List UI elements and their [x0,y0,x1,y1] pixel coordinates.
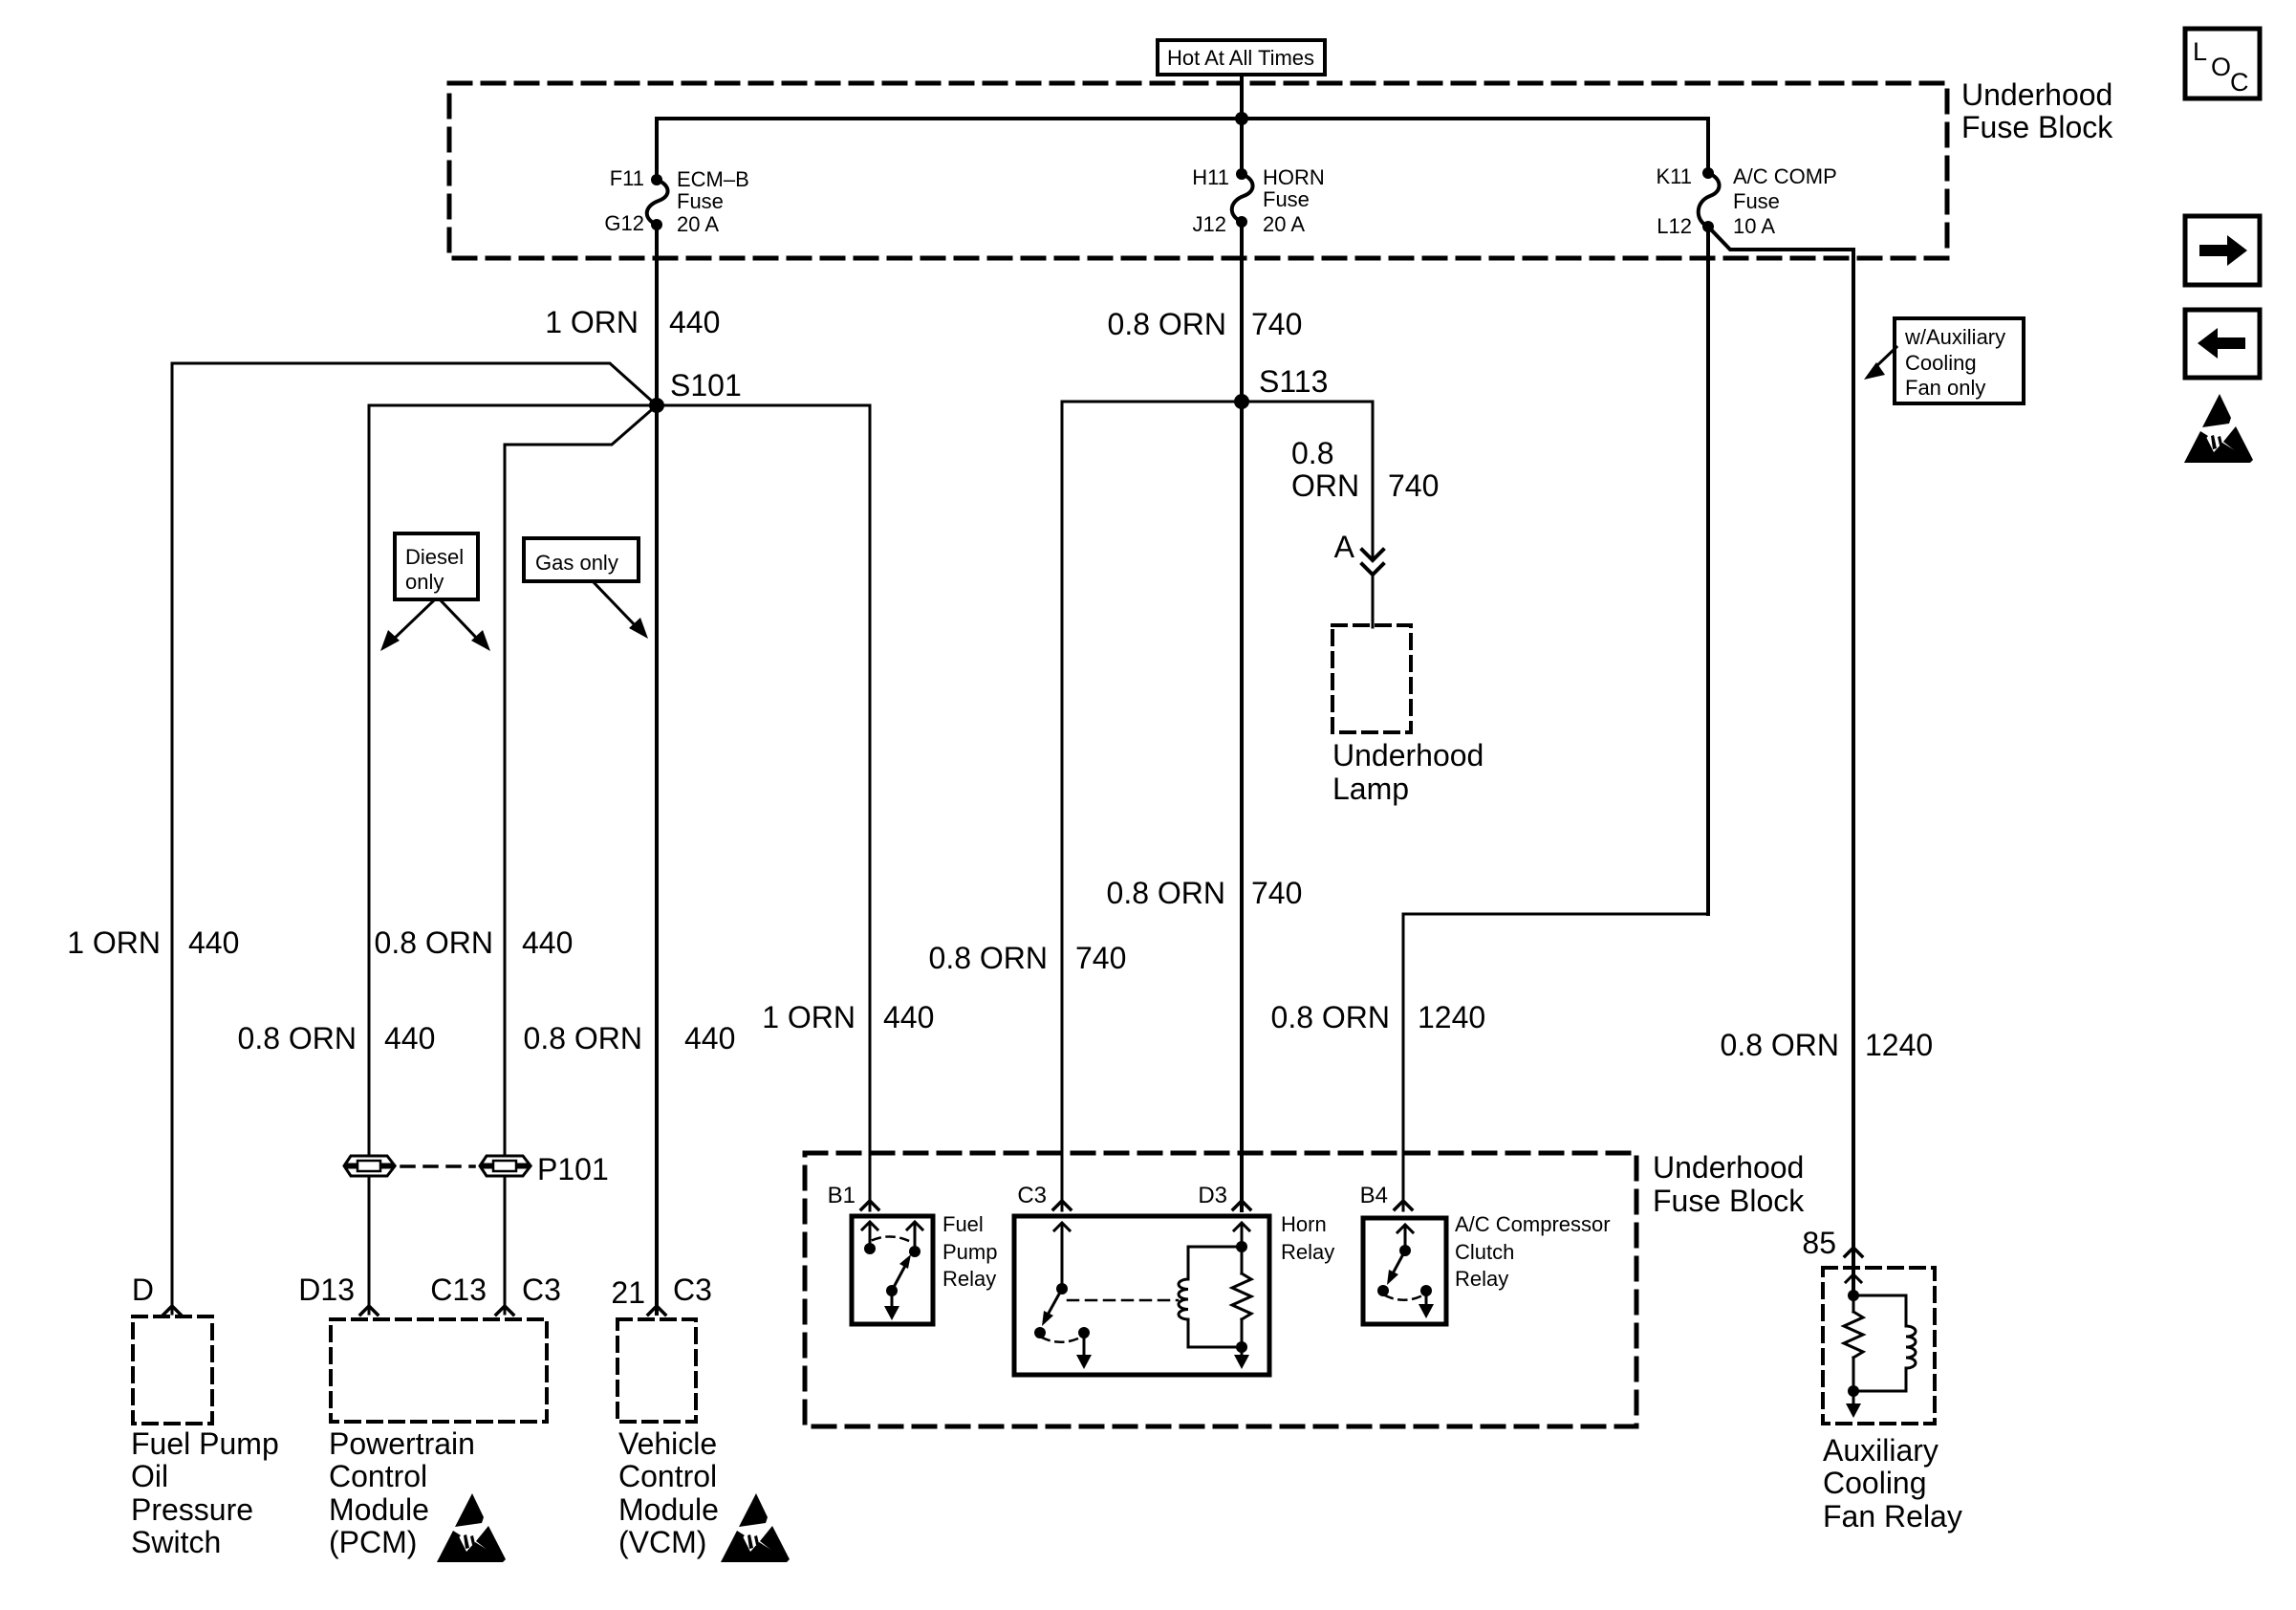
fuse ECM-B 20A (F11/G12) [647,174,668,230]
svg-text:L: L [2193,37,2207,66]
terminal 21 [611,1275,665,1315]
wire: S113 left branch [1062,402,1242,1210]
svg-text:20 A: 20 A [1263,212,1305,236]
svg-text:Fuse: Fuse [1263,187,1310,211]
svg-text:0.8 ORN: 0.8 ORN [1108,307,1226,341]
wire: S101 to VCM C3 [655,405,659,1314]
svg-text:F11: F11 [610,166,644,190]
svg-text:HORN: HORN [1263,165,1325,189]
svg-text:440: 440 [883,1000,934,1034]
wire label 0.8 ORN 440 (VCM wire) [524,1021,736,1055]
svg-text:P101: P101 [537,1152,609,1186]
svg-text:740: 740 [1388,468,1439,503]
svg-text:Lamp: Lamp [1332,772,1409,806]
wire: K11 elbow to B4 [1403,914,1708,1210]
svg-text:Module: Module [618,1492,719,1527]
svg-text:740: 740 [1075,941,1126,975]
svg-text:w/Auxiliary: w/Auxiliary [1904,325,2005,349]
svg-text:B4: B4 [1360,1183,1388,1208]
a/c compressor clutch relay U3 [1363,1218,1446,1324]
svg-text:(PCM): (PCM) [329,1525,417,1559]
svg-text:Relay: Relay [1281,1240,1334,1264]
arrow: gas to VCM wire [593,581,648,639]
arrow: diesel to right wire [440,599,490,651]
wire: H11 drop [1240,119,1244,174]
svg-text:Relay: Relay [942,1267,996,1291]
svg-text:C3: C3 [1017,1183,1047,1208]
label: Auxiliary Cooling Fan Relay [1823,1433,1962,1534]
label: Fuel Pump Relay [942,1212,997,1291]
svg-text:C: C [2230,68,2249,97]
next-page right arrow box [2185,216,2260,285]
svg-text:Powertrain: Powertrain [329,1426,475,1461]
svg-text:0.8 ORN: 0.8 ORN [1721,1028,1839,1062]
svg-text:J12: J12 [1193,212,1226,236]
svg-text:10 A: 10 A [1733,214,1775,238]
wire: S101 left branch at 424 [369,404,657,407]
node S101 [649,368,742,413]
svg-text:(VCM): (VCM) [618,1525,706,1559]
connector P101 (left half on D13 wire) [345,1156,394,1176]
value label ECM-B Fuse 20 A [677,167,749,236]
wire: K11 drop [1706,119,1710,173]
terminal D13 [298,1273,378,1315]
svg-text:Cooling: Cooling [1823,1466,1927,1500]
svg-text:L12: L12 [1657,214,1692,238]
label: Fuel Pump Oil Pressure Switch [131,1426,279,1559]
svg-text:ECM–B: ECM–B [677,167,749,191]
wire: S113 right branch to lamp [1242,402,1373,559]
svg-text:S101: S101 [670,368,742,402]
svg-text:K11: K11 [1656,164,1692,188]
powertrain control module dashed box [331,1319,547,1422]
svg-text:20 A: 20 A [677,212,719,236]
Underhood Lamp dashed box [1332,625,1484,806]
terminal C13 [430,1273,513,1315]
svg-text:Fuel: Fuel [942,1212,984,1236]
esd symbol (top right) [2184,394,2253,463]
svg-text:1 ORN: 1 ORN [67,925,161,960]
wire: hot feed drop [1240,75,1244,119]
wire label 0.8 ORN 740 (S113 feed) [1108,307,1303,341]
svg-text:Switch: Switch [131,1525,221,1559]
node S113 [1234,364,1328,409]
label: Vehicle Control Module (VCM) [618,1426,719,1559]
svg-text:440: 440 [188,925,239,960]
horn relay U2 [1014,1216,1269,1375]
value label A/C COMP Fuse 10 A [1733,164,1837,238]
svg-text:Diesel: Diesel [405,545,464,569]
prev-page left arrow box [2185,310,2260,378]
wire: dashed tie between P101 halves [401,1164,474,1168]
wire label 0.8 ORN 440 (D13 wire) [238,1021,436,1055]
svg-text:S113: S113 [1259,364,1328,399]
svg-text:740: 740 [1251,307,1302,341]
svg-text:440: 440 [684,1021,735,1055]
svg-text:Fuse: Fuse [677,189,724,213]
terminal D3 (horn relay) [1198,1183,1250,1209]
svg-text:0.8 ORN: 0.8 ORN [1107,876,1225,910]
esd symbol (VCM) [721,1493,790,1562]
svg-text:0.8 ORN: 0.8 ORN [1271,1000,1390,1034]
svg-text:Oil: Oil [131,1459,168,1493]
svg-text:Hot At All Times: Hot At All Times [1167,46,1314,70]
wire: S101 diag to lower-left branch [505,405,657,445]
svg-text:Gas only: Gas only [535,551,618,575]
svg-text:C3: C3 [673,1273,712,1307]
fuel pump oil pressure switch dashed box [133,1316,212,1424]
wire: branch drop to D13 [368,405,371,1314]
svg-text:Control: Control [618,1459,717,1493]
svg-text:1240: 1240 [1418,1000,1485,1034]
svg-text:Cooling: Cooling [1905,351,1977,375]
wire: left branch drop to D [171,363,174,1314]
underhood fuse block (bottom) dashed box [805,1153,1636,1426]
svg-text:Underhood: Underhood [1332,738,1484,772]
terminal D [132,1273,181,1315]
svg-text:Underhood: Underhood [1653,1150,1804,1185]
wire: branch drop to C13 [504,445,507,1314]
arrow: w/aux to fan wire [1864,347,1896,380]
svg-text:Fuse Block: Fuse Block [1961,110,2113,144]
wire: S101 right branch [657,405,870,1210]
svg-text:Auxiliary: Auxiliary [1823,1433,1939,1468]
wire label 0.8 ORN 740 (lamp branch) [1291,436,1439,503]
label: Underhood Fuse Block (top right) [1961,77,2113,144]
svg-text:C13: C13 [430,1273,487,1307]
terminal C3 (horn relay) [1017,1183,1071,1209]
label: Underhood Fuse Block (bottom right) [1653,1150,1805,1218]
svg-text:Pressure: Pressure [131,1492,253,1527]
wire: G12 to S101 [655,225,659,405]
svg-text:85: 85 [1802,1226,1836,1260]
terminal 85 [1802,1226,1862,1260]
wire label 1 ORN 440 (pressure switch) [67,925,239,960]
wire: S113 to D3 [1240,402,1244,1210]
wire label 0.8 ORN 440 (C13 wire) [375,925,574,960]
Diesel only label box [395,533,478,599]
wire label 0.8 ORN 740 (D3) [1107,876,1303,910]
svg-text:Underhood: Underhood [1961,77,2112,112]
svg-text:1240: 1240 [1865,1028,1933,1062]
svg-text:1 ORN: 1 ORN [762,1000,856,1034]
svg-text:A: A [1334,530,1355,564]
label: Powertrain Control Module (PCM) [329,1426,475,1559]
vehicle control module dashed box [617,1319,696,1422]
fuse A/C COMP 10A (K11/L12) [1699,167,1720,232]
svg-text:H11: H11 [1192,165,1229,189]
svg-text:Fuse Block: Fuse Block [1653,1184,1805,1218]
svg-text:740: 740 [1251,876,1302,910]
Gas only label box [524,538,639,581]
svg-text:D: D [132,1273,154,1307]
svg-text:0.8 ORN: 0.8 ORN [238,1021,357,1055]
svg-text:440: 440 [384,1021,435,1055]
wire label 1 ORN 440 (B1) [762,1000,934,1034]
svg-text:Fan only: Fan only [1905,376,1985,400]
svg-text:Relay: Relay [1455,1267,1508,1291]
svg-text:0.8 ORN: 0.8 ORN [929,941,1048,975]
svg-text:440: 440 [522,925,573,960]
arrow: diesel to left wire [380,599,435,651]
LOC reference box [2185,29,2260,98]
wire: fan branch drop [1852,250,1855,1295]
svg-text:A/C COMP: A/C COMP [1733,164,1837,188]
svg-text:O: O [2211,53,2231,81]
esd symbol (PCM) [437,1493,506,1562]
label: Horn Relay [1281,1212,1334,1264]
svg-text:0.8 ORN: 0.8 ORN [375,925,493,960]
svg-text:B1: B1 [828,1183,856,1208]
terminal B1 [828,1183,878,1209]
svg-text:Clutch: Clutch [1455,1240,1514,1264]
svg-text:21: 21 [611,1275,645,1310]
node: bus junction [1235,112,1248,125]
svg-text:Horn: Horn [1281,1212,1327,1236]
svg-text:D13: D13 [298,1273,355,1307]
svg-text:C3: C3 [522,1273,561,1307]
wire: S101 diag to upper-left branch [172,363,657,405]
svg-text:G12: G12 [604,211,644,235]
wire: top bus [657,117,1708,120]
Hot At All Times label box [1158,40,1325,75]
svg-text:Fuel Pump: Fuel Pump [131,1426,279,1461]
label: A/C Compressor Clutch Relay [1455,1212,1611,1291]
svg-text:only: only [405,570,444,594]
underhood fuse block (top) dashed box [449,83,1947,258]
connector P101 (right half on C13 wire) [481,1156,530,1176]
svg-text:1 ORN: 1 ORN [545,305,639,339]
svg-text:0.8 ORN: 0.8 ORN [524,1021,642,1055]
svg-text:D3: D3 [1198,1183,1227,1208]
svg-text:ORN: ORN [1291,468,1359,503]
wire: J12 to S113 [1240,222,1244,402]
wire label 0.8 ORN 1240 (fan relay) [1721,1028,1934,1062]
node A in-line connector [1334,530,1383,627]
svg-text:A/C Compressor: A/C Compressor [1455,1212,1611,1236]
terminal B4 [1360,1183,1412,1209]
wire label 0.8 ORN 740 (C3) [929,941,1127,975]
w/Auxiliary Cooling Fan only label box [1895,318,2024,403]
fuse HORN 20A (H11/J12) [1232,168,1253,228]
wire label 1 ORN 440 (S101 feed) [545,305,720,339]
svg-text:Control: Control [329,1459,427,1493]
wire: F11 drop [655,119,659,180]
auxiliary cooling fan relay dashed box [1823,1268,1935,1424]
svg-text:0.8: 0.8 [1291,436,1333,470]
fuel pump relay U1 [852,1216,933,1324]
svg-text:Pump: Pump [942,1240,997,1264]
svg-text:Module: Module [329,1492,429,1527]
wire: L12 jog to fan branch [1708,227,1853,250]
wire label 0.8 ORN 1240 (B4) [1271,1000,1486,1034]
value label HORN Fuse 20 A [1263,165,1325,236]
svg-text:Fan Relay: Fan Relay [1823,1499,1962,1534]
svg-text:Vehicle: Vehicle [618,1426,717,1461]
wire: L12 down to elbow [1706,227,1710,914]
svg-text:440: 440 [669,305,720,339]
svg-text:Fuse: Fuse [1733,189,1780,213]
